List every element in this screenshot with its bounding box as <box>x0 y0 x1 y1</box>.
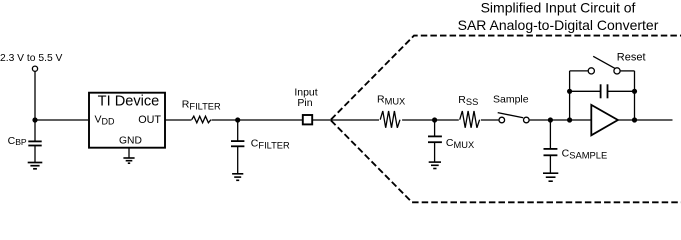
wire feedback cap row left <box>570 90 601 92</box>
dashed boundary upper <box>331 36 681 120</box>
wire op-amp output <box>618 119 673 121</box>
TI Device box U1 <box>89 93 165 148</box>
switch Sample contact right <box>524 117 530 123</box>
wire reset row right <box>620 70 634 72</box>
capacitor feedback (reset cap) <box>601 84 608 98</box>
node CFILTER junction <box>235 117 240 122</box>
svg-text:2.3 V to 5.5 V: 2.3 V to 5.5 V <box>0 53 63 64</box>
wire CSAMPLE to ground <box>549 155 551 173</box>
svg-text:GND: GND <box>119 135 142 146</box>
switch Reset lever <box>593 56 615 68</box>
node CMUX junction <box>432 117 437 122</box>
svg-text:Simplified Input Circuit of: Simplified Input Circuit of <box>481 0 636 16</box>
wire junction to CMUX <box>434 120 436 136</box>
node CSAMPLE junction <box>548 117 553 122</box>
svg-text:Pin: Pin <box>297 97 312 109</box>
wire junction to CFILTER <box>237 120 239 141</box>
switch Reset contact left <box>588 68 594 74</box>
wire feedback right vertical <box>634 71 636 120</box>
title text <box>458 0 659 33</box>
capacitor CSAMPLE <box>544 149 558 155</box>
wire sample switch to op-amp <box>529 119 591 121</box>
resistor RMUX <box>380 111 400 128</box>
wire RMUX to RSS <box>402 119 459 121</box>
svg-text:Sample: Sample <box>493 93 529 105</box>
switch Sample contact left <box>499 117 505 123</box>
svg-text:Reset: Reset <box>617 52 646 64</box>
node feedback cap left junction <box>567 89 572 94</box>
ground (TI Device) <box>123 158 134 163</box>
dashed boundary lower <box>331 121 681 203</box>
wire feedback cap row right <box>608 90 635 92</box>
wire CBP to ground <box>34 146 36 163</box>
wire GND pin to ground <box>128 148 130 158</box>
resistor RSS <box>460 111 480 128</box>
op-amp comparator <box>591 105 618 135</box>
svg-text:CSAMPLE: CSAMPLE <box>562 147 608 160</box>
svg-text:OUT: OUT <box>138 114 161 126</box>
supply terminal <box>32 66 37 71</box>
resistor RFILTER <box>192 116 211 123</box>
capacitor CFILTER <box>231 141 244 146</box>
switch Sample lever <box>498 113 524 118</box>
wire RSS to sample switch <box>481 119 499 121</box>
wire feedback left vertical <box>569 71 571 120</box>
ground (CMUX) <box>429 162 441 168</box>
node supply/CBP junction <box>32 117 37 122</box>
ground (CFILTER) <box>232 174 243 181</box>
svg-text:TI Device: TI Device <box>98 93 160 109</box>
wire input pin to RMUX <box>312 119 379 121</box>
ground (CSAMPLE) <box>543 173 558 181</box>
capacitor CMUX <box>428 136 442 142</box>
capacitor CBP <box>28 141 41 145</box>
ground (CBP) <box>28 163 43 169</box>
wire supply vertical <box>34 71 36 141</box>
wire RFILTER to input pin <box>212 119 303 121</box>
wire OUT to RFILTER <box>165 119 192 121</box>
switch Reset contact right <box>614 68 620 74</box>
wire CFILTER to ground <box>237 146 239 173</box>
wire supply to VDD pin <box>35 119 88 121</box>
input pin terminal (square) <box>303 115 312 124</box>
node output junction <box>632 117 637 122</box>
wire CMUX to ground <box>434 142 436 162</box>
svg-text:CBP: CBP <box>8 135 27 147</box>
node feedback cap right junction <box>632 89 637 94</box>
node feedback left junction <box>567 117 572 122</box>
wire reset row left <box>570 70 589 72</box>
wire junction to CSAMPLE <box>549 120 551 149</box>
Input Pin label <box>294 86 317 109</box>
svg-text:SAR Analog-to-Digital Converte: SAR Analog-to-Digital Converter <box>458 17 659 33</box>
